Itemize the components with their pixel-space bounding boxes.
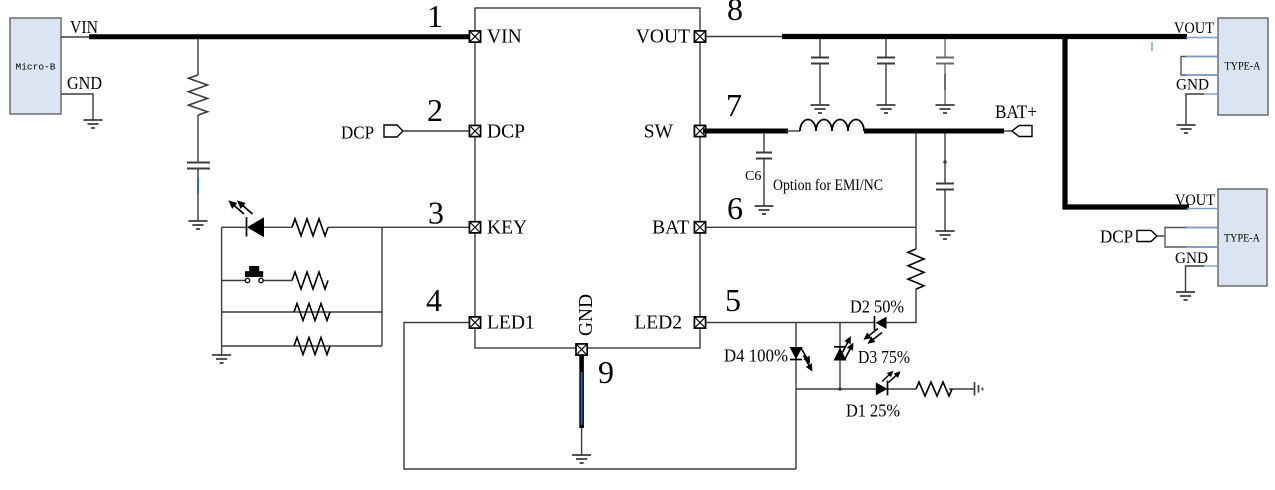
svg-text:DCP: DCP xyxy=(341,123,374,143)
wire KEY row2 xyxy=(222,280,292,282)
LED (KEY row) xyxy=(247,217,265,237)
wire KEY left rail xyxy=(221,227,223,355)
LED D1 25% xyxy=(876,381,888,396)
wire VOUT cap3 to ground xyxy=(944,64,946,105)
pin 7 SW xyxy=(644,87,742,143)
svg-text:6: 6 xyxy=(727,190,743,226)
wire VOUT stub xyxy=(706,36,788,38)
pin 4 LED1 xyxy=(426,282,535,334)
LED D4 light arrows xyxy=(798,346,816,373)
svg-text:GND: GND xyxy=(67,73,102,93)
blue lead mark xyxy=(197,178,199,194)
pin 5 LED2 xyxy=(634,282,741,334)
wire KEY row1 xyxy=(222,226,469,228)
svg-text:Micro-B: Micro-B xyxy=(16,62,56,73)
ground (pin 9) xyxy=(572,455,591,463)
wire VIN stub from Micro-B xyxy=(61,36,95,38)
svg-text:GND: GND xyxy=(1175,250,1208,267)
resistor (divider) xyxy=(908,249,924,289)
svg-text:8: 8 xyxy=(727,0,743,27)
pin 8 VOUT xyxy=(636,0,743,48)
ground (J3) xyxy=(1176,292,1195,300)
svg-text:9: 9 xyxy=(598,354,614,390)
wire D3 branch vertical xyxy=(839,323,841,390)
svg-text:LED2: LED2 xyxy=(634,313,682,334)
wire VOUT thick rail xyxy=(782,34,1187,39)
data loop (J3) xyxy=(1165,228,1218,248)
wire DCP flag to loop xyxy=(1157,235,1165,237)
wire VOUT cap3 xyxy=(944,39,946,57)
junction (BAT cap) xyxy=(943,160,946,163)
svg-text:VIN: VIN xyxy=(70,17,98,37)
wire VIN to R divider xyxy=(197,38,199,75)
svg-text:3: 3 xyxy=(428,195,444,231)
wire KEY row3 xyxy=(222,311,382,313)
wire GND pin 9 thick xyxy=(579,355,584,428)
wire BAT+ thick rail xyxy=(864,129,1004,134)
svg-text:VIN: VIN xyxy=(487,27,522,48)
wire SW to inductor xyxy=(786,130,800,132)
svg-text:KEY: KEY xyxy=(487,218,527,239)
wire resistor to capacitor xyxy=(197,115,199,162)
wire BAT+ to divider xyxy=(915,133,917,249)
svg-text:DCP: DCP xyxy=(487,122,525,143)
wire DCP to pin 2 xyxy=(403,130,469,132)
svg-text:D1 25%: D1 25% xyxy=(846,401,900,421)
blue core (GND pin 9) xyxy=(581,372,583,425)
wire VOUT cap1 xyxy=(819,39,821,57)
svg-text:TYPE-A: TYPE-A xyxy=(1225,61,1262,73)
net flag DCP (left) xyxy=(384,125,403,137)
ground (J2) xyxy=(1177,125,1196,133)
LED D2 light arrows xyxy=(861,326,884,347)
ground (Micro-B GND) xyxy=(84,120,103,128)
svg-text:GND: GND xyxy=(1176,77,1209,94)
svg-text:1: 1 xyxy=(427,0,443,34)
wire GND from Micro-B xyxy=(61,94,93,120)
LED D3 75% xyxy=(834,347,847,361)
wire SW thick xyxy=(703,129,788,134)
pin stub VOUT (J2) xyxy=(1186,37,1218,39)
svg-text:D4 100%: D4 100% xyxy=(724,346,788,366)
svg-text:LED1: LED1 xyxy=(487,313,535,334)
wire GND pin 9 thin xyxy=(581,428,583,455)
wire C6 to ground xyxy=(763,159,765,206)
blue tick (VOUT rail) xyxy=(1151,42,1153,51)
wire BAT cap branch xyxy=(944,133,946,183)
wire GND (J2) xyxy=(1186,94,1218,125)
data loop (J2) xyxy=(1181,57,1218,76)
ground (D1, sideways) xyxy=(975,382,983,396)
wire VOUT branch thick xyxy=(1065,37,1189,208)
svg-text:7: 7 xyxy=(726,87,742,123)
svg-text:2: 2 xyxy=(427,92,443,128)
IC U1 body xyxy=(475,8,700,348)
net flag DCP (bottom) xyxy=(1137,230,1157,241)
ground (VOUT cap1) xyxy=(811,105,830,113)
wire KEY right rail xyxy=(381,227,383,346)
polarity mark (VOUT cap3) xyxy=(944,74,946,90)
connector J2 TYPE-A (top) xyxy=(1218,18,1268,115)
resistor (KEY row3) xyxy=(294,304,330,321)
resistor (KEY row4) xyxy=(294,338,330,355)
ground (VIN chain) xyxy=(189,221,208,229)
wire to BAT+ flag xyxy=(1004,130,1013,132)
resistor (VIN chain, vertical) xyxy=(189,75,208,115)
wire VIN thick rail xyxy=(89,34,470,39)
wire divider to D2 xyxy=(915,289,917,323)
wire D1 row xyxy=(796,388,975,390)
inductor L1 xyxy=(800,120,864,131)
svg-text:BAT: BAT xyxy=(652,218,689,239)
svg-text:GND: GND xyxy=(576,294,597,336)
ground (BAT cap) xyxy=(936,231,955,239)
wire VOUT cap2 to ground xyxy=(885,64,887,105)
resistor (D1) xyxy=(916,382,952,396)
wire C6 branch xyxy=(763,133,765,152)
wire LED2 row xyxy=(706,322,916,324)
svg-text:BAT+: BAT+ xyxy=(995,102,1037,123)
LED D4 100% xyxy=(790,347,803,360)
capacitor (VOUT 1) xyxy=(811,58,829,64)
wire GND (J3) xyxy=(1186,266,1219,292)
svg-text:C6: C6 xyxy=(745,169,761,184)
pin 1 VIN xyxy=(427,0,522,48)
wire KEY row4 xyxy=(222,345,382,347)
ground (VOUT cap3) xyxy=(936,105,955,113)
push button SW1 xyxy=(245,266,263,283)
wire BAT cap to ground xyxy=(944,190,946,231)
wire capacitor to ground xyxy=(197,169,199,221)
LED (KEY row) light arrows xyxy=(226,197,255,217)
svg-text:VOUT: VOUT xyxy=(636,27,690,48)
pin 9 GND xyxy=(576,294,614,390)
svg-text:Option for EMI/NC: Option for EMI/NC xyxy=(773,177,883,194)
capacitor (VIN chain) xyxy=(187,163,210,169)
wire VOUT cap2 xyxy=(885,39,887,57)
capacitor (VOUT 3) xyxy=(936,58,954,64)
capacitor C6 xyxy=(756,153,772,159)
capacitor (VOUT 2) xyxy=(877,58,895,64)
connector J1 Micro-B xyxy=(10,18,61,114)
pin stub VOUT (J3) xyxy=(1187,208,1218,210)
pin 6 BAT xyxy=(652,190,743,239)
ground (VOUT cap2) xyxy=(877,105,896,113)
LED D3 light arrows xyxy=(839,334,856,360)
ground (C6) xyxy=(755,206,774,214)
svg-text:D2 50%: D2 50% xyxy=(850,297,904,317)
pin 3 KEY xyxy=(428,195,527,239)
wire VOUT cap1 to ground xyxy=(819,64,821,105)
ground (KEY rail) xyxy=(212,355,231,363)
svg-text:5: 5 xyxy=(725,282,741,318)
connector J3 TYPE-A (bottom) xyxy=(1218,189,1267,286)
svg-text:D3 75%: D3 75% xyxy=(858,347,910,367)
resistor (KEY row2) xyxy=(292,272,328,289)
svg-text:SW: SW xyxy=(644,122,674,143)
capacitor (BAT) xyxy=(936,184,954,190)
pin 2 DCP xyxy=(427,92,525,143)
svg-text:TYPE-A: TYPE-A xyxy=(1224,233,1261,245)
wire BAT row xyxy=(706,226,916,228)
svg-text:VOUT: VOUT xyxy=(1174,20,1214,37)
net flag BAT+ xyxy=(1012,126,1032,137)
svg-text:4: 4 xyxy=(426,282,442,318)
junction (D3/D1) xyxy=(838,387,842,391)
svg-text:VOUT: VOUT xyxy=(1175,192,1215,209)
wire LED1 loop xyxy=(404,323,796,470)
wire D4 branch vertical xyxy=(795,323,797,470)
svg-text:DCP: DCP xyxy=(1100,227,1133,247)
LED D1 light arrows xyxy=(880,369,903,385)
LED D2 50% xyxy=(875,316,887,330)
resistor (KEY row1) xyxy=(292,219,328,236)
